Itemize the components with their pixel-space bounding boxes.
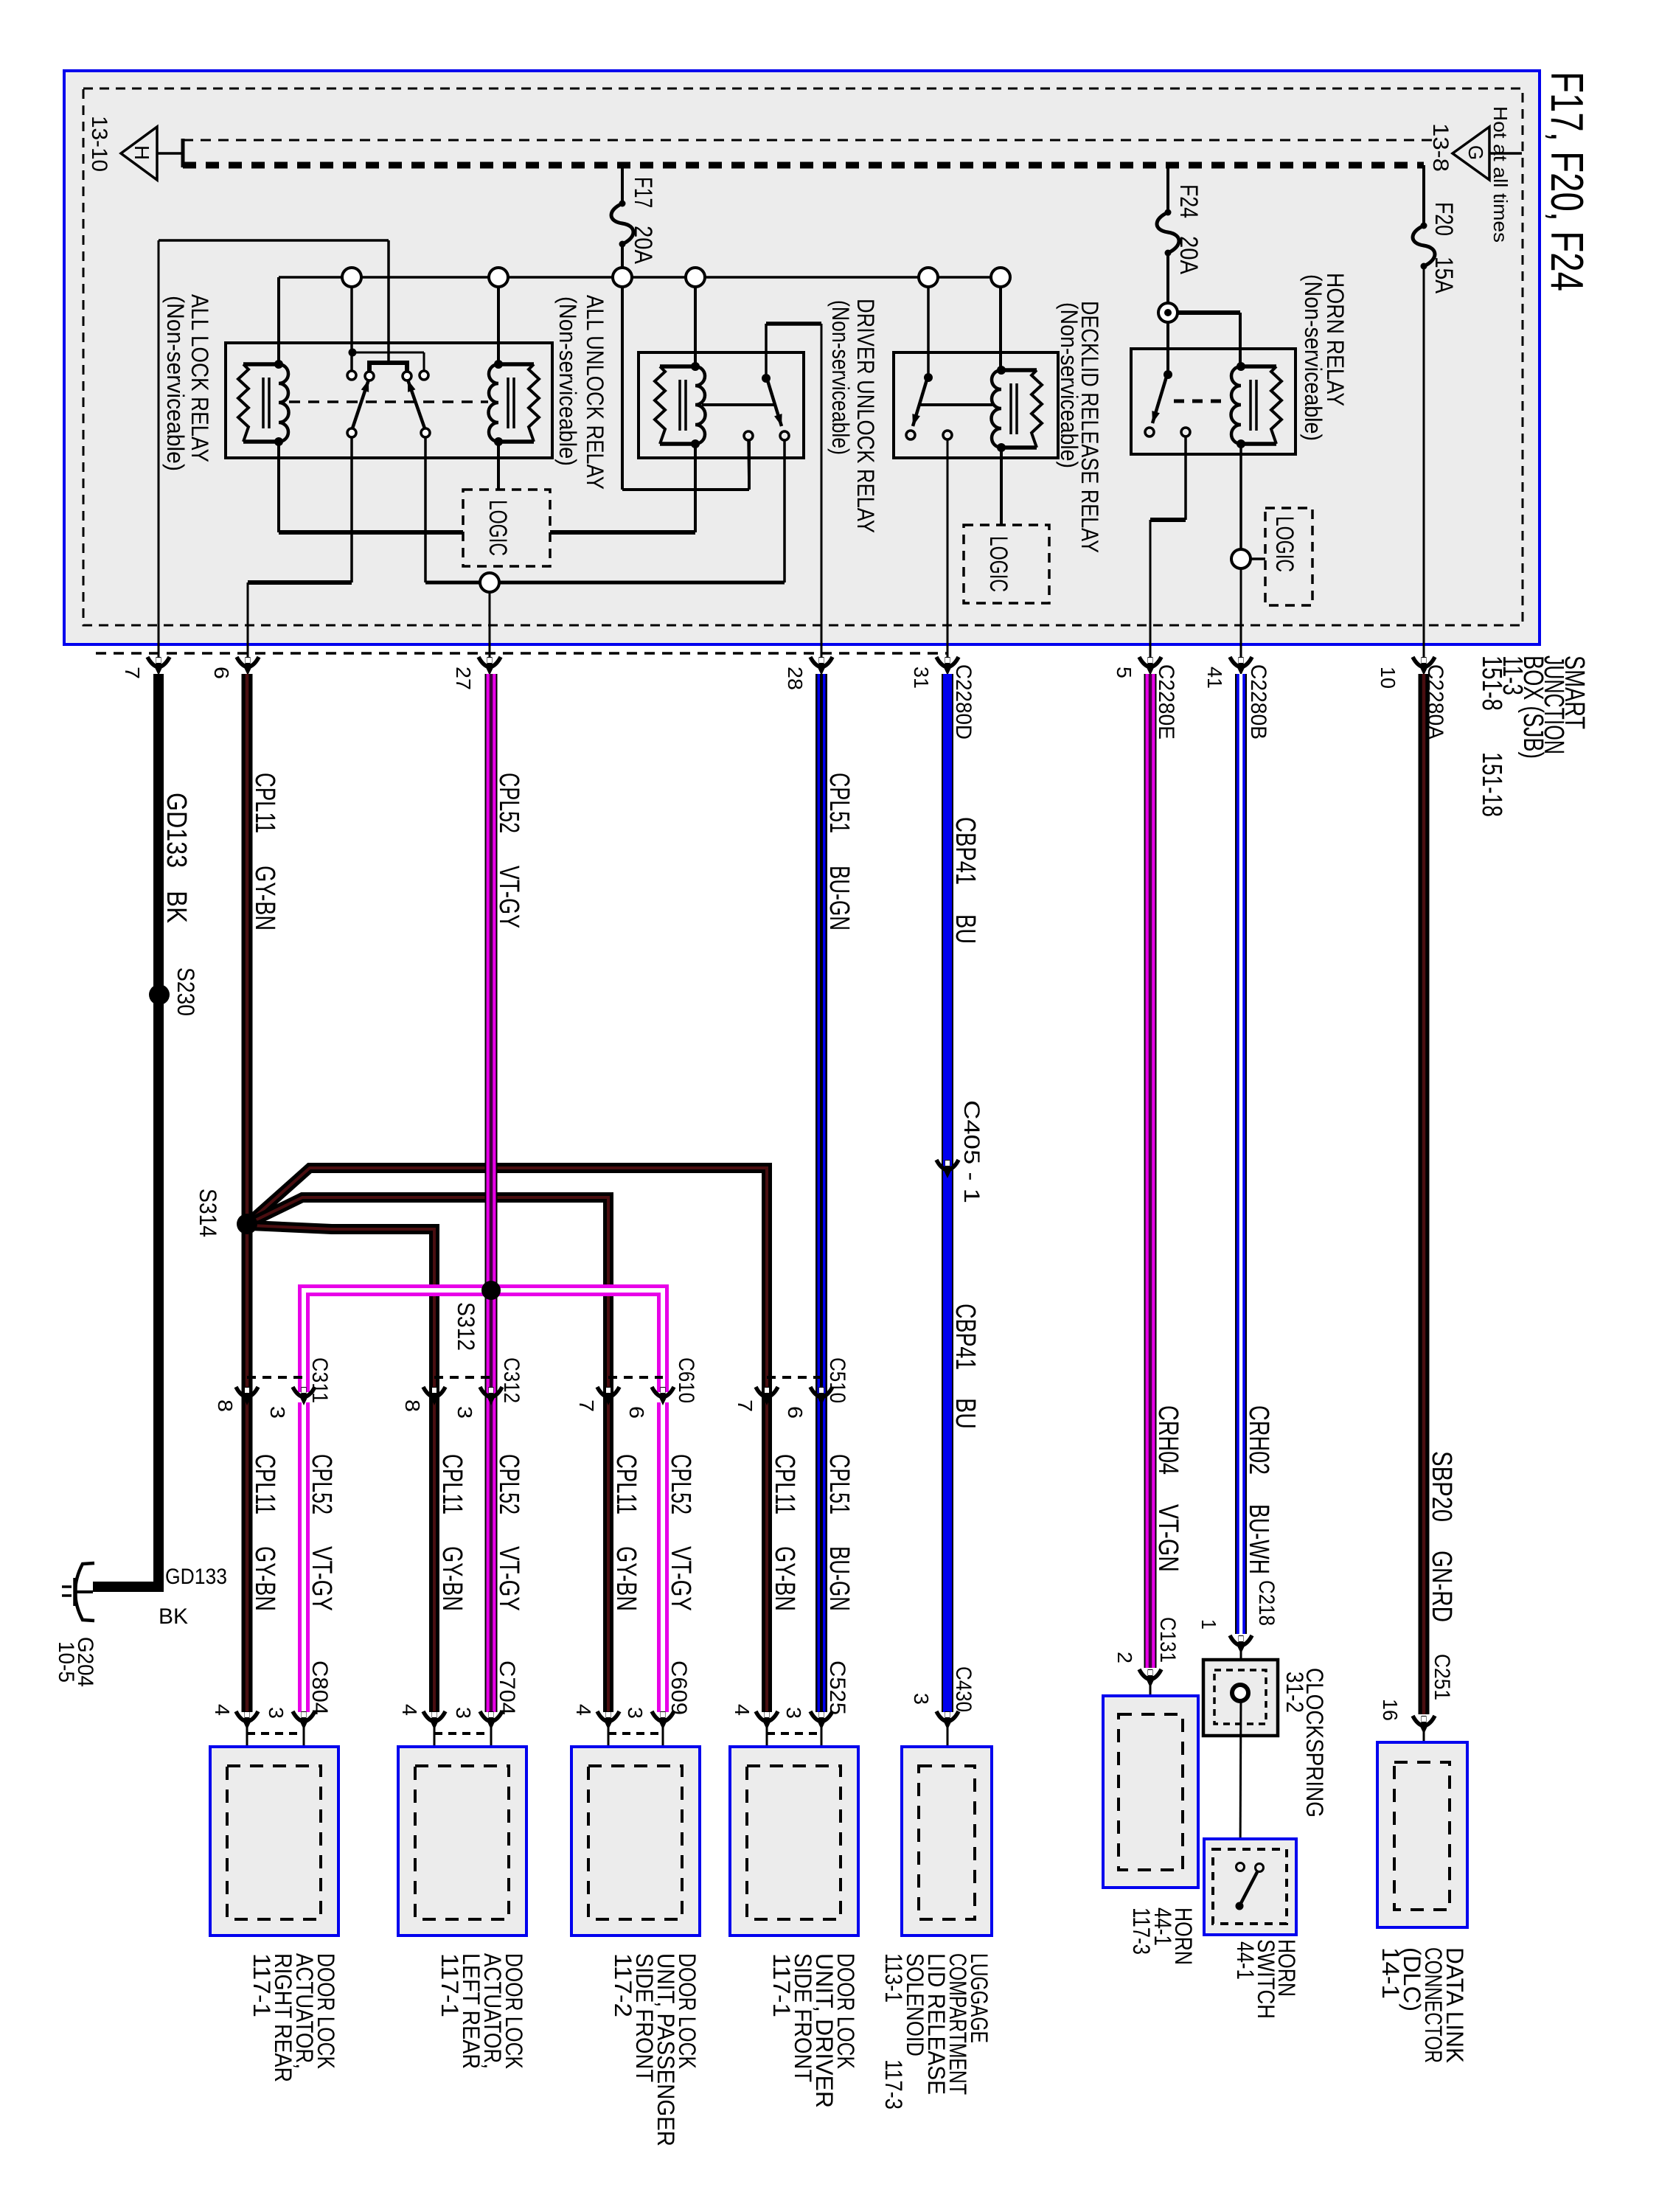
terminal circle F24 junction xyxy=(1158,303,1178,322)
fuse F20 15A xyxy=(1422,165,1425,226)
wire GD133 BK xyxy=(153,674,164,1592)
svg-text:8: 8 xyxy=(214,1399,237,1412)
component box LUGGAGE COMPARTMENT LID RELEASE SOLENOID xyxy=(902,1747,992,1935)
svg-text:C704: C704 xyxy=(495,1660,519,1715)
svg-text:7: 7 xyxy=(121,667,144,679)
svg-text:CRH02: CRH02 xyxy=(1243,1405,1274,1475)
svg-text:BU: BU xyxy=(950,1398,981,1429)
wire C804 branch xyxy=(298,1402,310,1712)
contact B3 right xyxy=(943,431,952,439)
component pins 4/3 at x825 xyxy=(608,1732,663,1735)
svg-text:VT-GN: VT-GN xyxy=(1152,1504,1183,1572)
svg-text:13-10: 13-10 xyxy=(87,116,111,172)
splice S314 xyxy=(237,1214,257,1234)
svg-text:C430: C430 xyxy=(951,1666,975,1712)
svg-text:GY-BN: GY-BN xyxy=(437,1546,467,1611)
svg-text:41: 41 xyxy=(1203,667,1226,689)
svg-text:3: 3 xyxy=(266,1406,289,1419)
svg-text:4: 4 xyxy=(572,1704,595,1716)
SJB pin 28 connector arrow xyxy=(810,657,832,675)
hot bus thin dashed wire xyxy=(183,139,1433,142)
svg-text:117-1: 117-1 xyxy=(248,1953,275,2017)
svg-text:31: 31 xyxy=(910,667,933,689)
svg-text:VT-GY: VT-GY xyxy=(306,1546,337,1611)
svg-text:27: 27 xyxy=(452,667,475,690)
horn pin arrow xyxy=(1139,1669,1161,1688)
relay box B2 driver unlock xyxy=(639,352,804,458)
wire B2 pivot to pin 28 xyxy=(766,321,821,326)
svg-text:C610: C610 xyxy=(674,1357,698,1403)
svg-text:VT-GY: VT-GY xyxy=(493,866,524,928)
svg-text:(Non-serviceable): (Non-serviceable) xyxy=(554,296,581,466)
wire CPL11 GY-BN main xyxy=(242,674,253,1712)
svg-text:2: 2 xyxy=(1113,1652,1136,1663)
contact B1 bottom left xyxy=(347,428,356,437)
SJB pin 41 connector arrow xyxy=(1230,657,1252,675)
relay B1 right blade xyxy=(408,380,425,428)
wire C609 branch xyxy=(657,1402,669,1712)
wire B3 coil to LOGIC2 xyxy=(1000,448,1003,525)
horn switch contacts xyxy=(1237,1863,1245,1871)
SJB pin 5 connector arrow xyxy=(1139,657,1161,675)
inline connector C510 pin 7 xyxy=(756,1387,778,1405)
svg-text:C405 - 1: C405 - 1 xyxy=(959,1100,984,1203)
power triangle G (13-8) xyxy=(1453,127,1489,180)
contact B1 bottom right xyxy=(421,428,430,437)
wire F24 branch to horn coil xyxy=(1176,310,1240,315)
relay box B4 horn xyxy=(1131,349,1295,454)
svg-text:ALL UNLOCK RELAY: ALL UNLOCK RELAY xyxy=(582,295,608,490)
svg-text:S230: S230 xyxy=(173,967,199,1016)
svg-text:4: 4 xyxy=(398,1704,421,1716)
relay B4 blade xyxy=(1152,377,1166,423)
terminal circle bus-5 xyxy=(919,268,938,287)
hot bus thick dashed wire (Hot at all times) xyxy=(183,162,1424,169)
svg-text:GY-BN: GY-BN xyxy=(249,866,280,931)
svg-text:BK: BK xyxy=(159,1604,188,1629)
terminal circle pin27 tap xyxy=(480,573,499,592)
wire CRH02 BU-WH xyxy=(1235,674,1247,1634)
inline connector C312 pin 3 xyxy=(480,1387,502,1405)
wire B1 right contact to pin 27 and B2 contact xyxy=(424,437,427,582)
SJB pin 7 connector arrow xyxy=(147,657,170,675)
wire B3 contact to pin 31 xyxy=(947,439,949,661)
inline connector C311 pin 8 xyxy=(236,1387,258,1405)
wire B1 left contact to pin 6 xyxy=(350,437,353,582)
svg-text:C804: C804 xyxy=(307,1660,332,1715)
smart junction box SJB outline xyxy=(64,71,1540,644)
svg-text:31-2: 31-2 xyxy=(1281,1672,1308,1713)
svg-text:20A: 20A xyxy=(1175,236,1203,274)
svg-text:113-1: 113-1 xyxy=(880,1953,907,2003)
svg-text:S312: S312 xyxy=(453,1302,479,1351)
svg-text:GY-BN: GY-BN xyxy=(611,1546,641,1611)
svg-text:15A: 15A xyxy=(1430,257,1458,293)
svg-text:C218: C218 xyxy=(1254,1580,1279,1626)
svg-text:CPL11: CPL11 xyxy=(611,1454,641,1514)
svg-text:CPL51: CPL51 xyxy=(824,773,855,833)
svg-text:C2280D: C2280D xyxy=(951,664,975,740)
svg-text:BK: BK xyxy=(161,891,192,923)
inline connector C510 pin 6 xyxy=(810,1387,832,1405)
logic box LOGIC1 xyxy=(463,490,550,566)
svg-text:6: 6 xyxy=(625,1406,648,1419)
svg-text:BU-GN: BU-GN xyxy=(824,1546,855,1611)
svg-text:(Non-serviceable): (Non-serviceable) xyxy=(1056,302,1082,468)
inline connector C610 dashed link xyxy=(608,1376,663,1379)
wire bus to B3 coil xyxy=(999,287,1002,370)
wire B2 coil to LOGIC1 xyxy=(694,444,697,532)
svg-text:3: 3 xyxy=(782,1707,805,1719)
inline connector C610 pin 6 xyxy=(652,1387,674,1405)
svg-text:C312: C312 xyxy=(499,1357,524,1403)
svg-text:3: 3 xyxy=(265,1707,288,1719)
inline connector C510 dashed link xyxy=(767,1376,821,1379)
svg-text:LOGIC: LOGIC xyxy=(1270,516,1298,572)
clockspring pin arrow xyxy=(1230,1635,1252,1654)
logic box LOGIC2 xyxy=(964,525,1049,603)
wire bus to B1 contacts xyxy=(350,287,353,371)
svg-text:10: 10 xyxy=(1377,667,1399,689)
svg-text:CPL11: CPL11 xyxy=(769,1454,800,1514)
contact B4 right xyxy=(1181,428,1190,437)
luggage solenoid pin arrow xyxy=(936,1711,959,1730)
component pins 4/3 at x335 xyxy=(247,1732,304,1735)
splice S312 xyxy=(481,1281,501,1300)
logic box LOGIC3 xyxy=(1265,508,1312,605)
SJB bottom connector dashed line xyxy=(96,652,947,655)
fuse F24 20A xyxy=(1166,165,1169,212)
svg-text:F17, F20, F24: F17, F20, F24 xyxy=(1541,72,1592,291)
SJB pin 6 connector arrow xyxy=(237,657,259,675)
SJB dashed inner border xyxy=(83,88,1523,625)
svg-text:S314: S314 xyxy=(195,1189,221,1237)
power triangle H (13-10) xyxy=(121,127,157,180)
component box DOOR LOCK SIDE FRONT xyxy=(571,1747,700,1935)
svg-text:SBP20: SBP20 xyxy=(1426,1451,1457,1522)
svg-text:G: G xyxy=(1464,145,1487,160)
SJB pin 27 connector arrow xyxy=(479,657,501,675)
relay B3 pivot xyxy=(924,373,933,382)
relay box B3 decklid release xyxy=(894,352,1058,458)
svg-text:CBP41: CBP41 xyxy=(950,1304,981,1370)
svg-text:CPL51: CPL51 xyxy=(824,1454,855,1514)
svg-text:7: 7 xyxy=(575,1399,598,1412)
svg-text:5: 5 xyxy=(1113,667,1135,678)
svg-text:GD133: GD133 xyxy=(161,793,192,868)
terminal circle bus-2 xyxy=(489,268,508,287)
svg-text:Hot at all times: Hot at all times xyxy=(1489,106,1512,243)
relay B1 contact bridge xyxy=(369,363,407,372)
terminal circle bus-4 xyxy=(686,268,705,287)
relay B2 blade xyxy=(768,380,782,426)
svg-text:BU-WH: BU-WH xyxy=(1243,1504,1274,1574)
relay B1 left blade xyxy=(352,380,369,428)
inline connector C311 pin 3 xyxy=(293,1387,315,1405)
wire SBP20 GN-RD xyxy=(1419,674,1430,1714)
svg-text:28: 28 xyxy=(784,667,807,690)
svg-text:CPL52: CPL52 xyxy=(306,1454,337,1514)
svg-text:LOGIC: LOGIC xyxy=(484,500,512,556)
wire B4 contact to pin 5 xyxy=(1184,437,1187,520)
relay B3 blade xyxy=(913,380,927,426)
wire B4 coil to LOGIC3 and pin 41 xyxy=(1239,444,1242,549)
svg-text:3: 3 xyxy=(452,1707,475,1719)
wire S312 branch to C311/C610 xyxy=(304,1290,663,1392)
svg-text:CPL11: CPL11 xyxy=(437,1454,467,1514)
inline connector C610 pin 7 xyxy=(597,1387,619,1405)
svg-text:10-5: 10-5 xyxy=(54,1641,78,1683)
wire S314 branch to C510 xyxy=(249,1168,767,1712)
contact B4 left xyxy=(1145,428,1154,437)
contact B2 left xyxy=(744,431,753,440)
wire CPL51 BU-GN xyxy=(815,674,827,1712)
svg-text:117-1: 117-1 xyxy=(437,1953,463,2017)
SJB internal bus wire xyxy=(279,276,1001,279)
svg-text:CBP41: CBP41 xyxy=(950,817,981,885)
svg-text:6: 6 xyxy=(784,1406,807,1419)
relay B2 coil xyxy=(655,362,706,448)
svg-text:C251: C251 xyxy=(1430,1654,1454,1700)
svg-text:4: 4 xyxy=(211,1704,234,1716)
svg-text:1: 1 xyxy=(1197,1619,1220,1630)
svg-text:3: 3 xyxy=(453,1406,476,1419)
contact stub B1 left xyxy=(347,371,356,380)
component box HORN SWITCH xyxy=(1204,1839,1296,1935)
svg-text:GY-BN: GY-BN xyxy=(249,1546,280,1611)
SJB pin 31 connector arrow xyxy=(936,657,959,675)
relay B4 actuation dashed link xyxy=(1174,400,1225,403)
component box HORN xyxy=(1103,1696,1198,1888)
svg-text:4: 4 xyxy=(731,1704,754,1716)
splice S230 xyxy=(149,984,170,1005)
svg-text:H: H xyxy=(131,145,153,160)
svg-text:F24: F24 xyxy=(1175,184,1203,218)
component pins 4/3 at x589 xyxy=(434,1732,491,1735)
svg-text:LOGIC: LOGIC xyxy=(984,536,1012,592)
svg-text:151-18: 151-18 xyxy=(1476,752,1507,817)
relay B1 actuation dashed link xyxy=(289,400,488,403)
svg-text:CPL52: CPL52 xyxy=(493,1454,524,1514)
inline connector C405-1 xyxy=(936,1160,959,1178)
svg-text:CPL52: CPL52 xyxy=(665,1454,696,1514)
svg-text:6: 6 xyxy=(210,667,233,679)
inline connector C312 dashed link xyxy=(434,1376,491,1379)
svg-text:117-1: 117-1 xyxy=(768,1953,795,2017)
svg-text:(Non-serviceable): (Non-serviceable) xyxy=(162,296,189,471)
fuse F17 20A xyxy=(621,165,624,204)
contact B3 left xyxy=(906,431,915,439)
wire bus to B1 unlock coil xyxy=(497,287,500,364)
svg-text:F20: F20 xyxy=(1430,202,1458,236)
svg-text:117-3: 117-3 xyxy=(880,2059,907,2110)
svg-text:C609: C609 xyxy=(667,1660,691,1715)
wire S314 branch to C312 xyxy=(251,1225,434,1712)
svg-text:8: 8 xyxy=(401,1399,424,1412)
component box DATA LINK CONNECTOR DLC xyxy=(1377,1742,1467,1927)
relay B2 pivot xyxy=(762,374,771,383)
relay B4 coil xyxy=(1231,362,1282,448)
inline connector C311 dashed link xyxy=(247,1376,304,1379)
wire B1 bridge to ground pin 7 xyxy=(387,240,390,363)
svg-text:C510: C510 xyxy=(825,1357,849,1403)
svg-text:ALL LOCK RELAY: ALL LOCK RELAY xyxy=(187,294,213,462)
component box DOOR LOCK LEFT REAR xyxy=(398,1747,526,1935)
ground symbol G204 xyxy=(77,1590,93,1593)
wire CPL52 VT-GY main xyxy=(485,674,498,1712)
SJB pin 10 connector arrow xyxy=(1413,657,1435,675)
wire S314 branch to C610 xyxy=(249,1197,608,1712)
relay B3 actuation link xyxy=(919,403,994,406)
svg-text:16: 16 xyxy=(1379,1699,1402,1721)
relay box B1 all lock/unlock xyxy=(226,343,552,458)
relay B3 coil xyxy=(992,366,1043,452)
svg-text:20A: 20A xyxy=(629,226,657,264)
relay B1 lock coil xyxy=(238,360,289,446)
wire B1 unlock coil to LOGIC xyxy=(497,442,500,490)
DLC pin arrow xyxy=(1413,1716,1435,1734)
contact B2 right xyxy=(780,431,789,440)
relay B2 actuation link xyxy=(702,403,776,406)
component box DOOR LOCK RIGHT REAR xyxy=(210,1747,338,1935)
svg-text:3: 3 xyxy=(910,1693,933,1705)
svg-text:117-2: 117-2 xyxy=(610,1953,636,2017)
wire bus to B2 coil xyxy=(694,287,697,366)
svg-text:DRIVER UNLOCK RELAY: DRIVER UNLOCK RELAY xyxy=(852,299,879,533)
terminal circle bus-1 xyxy=(342,268,361,287)
terminal circle bus-3 (F17 tap) xyxy=(613,268,632,287)
svg-text:CRH04: CRH04 xyxy=(1152,1405,1183,1475)
clockspring ring symbol xyxy=(1232,1685,1248,1701)
svg-text:C131: C131 xyxy=(1155,1617,1180,1663)
component box DOOR LOCK SIDE FRONT xyxy=(730,1747,858,1935)
svg-text:BU: BU xyxy=(950,914,981,944)
svg-text:F17: F17 xyxy=(629,177,657,208)
wire CBP41 BU xyxy=(942,674,953,1712)
wire F17 to all-unlock contact xyxy=(622,488,749,491)
svg-text:BU-GN: BU-GN xyxy=(824,866,855,931)
svg-text:CPL11: CPL11 xyxy=(249,773,280,833)
wire CRH04 VT-GN xyxy=(1144,674,1157,1668)
inline connector C312 pin 8 xyxy=(423,1387,445,1405)
svg-text:C2280B: C2280B xyxy=(1246,664,1270,740)
svg-text:151-8: 151-8 xyxy=(1476,655,1507,711)
svg-text:C311: C311 xyxy=(307,1357,332,1403)
component pins 4/3 at x1040 xyxy=(767,1732,821,1735)
svg-text:C525: C525 xyxy=(825,1660,849,1715)
svg-text:VT-GY: VT-GY xyxy=(665,1546,696,1611)
svg-text:GD133: GD133 xyxy=(165,1565,227,1589)
wire B1 lock coil to LOGIC xyxy=(277,442,280,532)
svg-text:117-3: 117-3 xyxy=(1128,1907,1155,1955)
svg-text:CPL52: CPL52 xyxy=(493,773,524,833)
svg-text:CPL11: CPL11 xyxy=(249,1454,280,1514)
terminal circle bus-6 xyxy=(991,268,1010,287)
relay B1 unlock coil xyxy=(489,360,540,446)
svg-text:14-1: 14-1 xyxy=(1377,1947,1404,1999)
svg-text:GN-RD: GN-RD xyxy=(1426,1551,1457,1622)
svg-text:VT-GY: VT-GY xyxy=(493,1546,524,1611)
component box CLOCKSPRING xyxy=(1203,1660,1278,1736)
svg-text:7: 7 xyxy=(734,1399,757,1412)
svg-text:3: 3 xyxy=(624,1707,647,1719)
svg-text:C2280E: C2280E xyxy=(1154,664,1178,740)
contact stub B1 right xyxy=(420,371,428,380)
relay B4 pivot xyxy=(1164,370,1172,379)
svg-text:(Non-serviceable): (Non-serviceable) xyxy=(1300,274,1326,441)
svg-text:44-1: 44-1 xyxy=(1232,1941,1259,1980)
svg-text:GY-BN: GY-BN xyxy=(769,1546,800,1611)
svg-text:(Non-serviceable): (Non-serviceable) xyxy=(827,300,854,455)
svg-text:13-8: 13-8 xyxy=(1428,123,1453,172)
